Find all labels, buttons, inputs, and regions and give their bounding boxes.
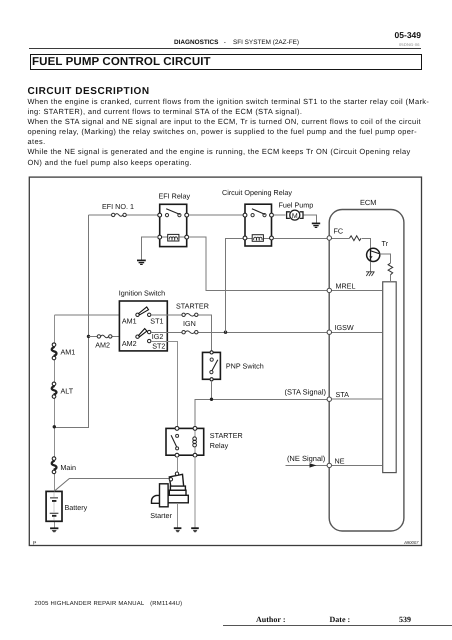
wire ST1 to PNP	[151, 315, 212, 351]
wire IGSW row	[332, 331, 383, 333]
svg-text:NE: NE	[335, 457, 345, 466]
svg-text:MREL: MREL	[336, 281, 356, 290]
svg-text:Ignition Switch: Ignition Switch	[119, 289, 165, 298]
section heading	[28, 86, 150, 97]
wire AM2 row	[89, 335, 136, 337]
EFI relay contact inner circles	[165, 214, 181, 217]
svg-text:FC: FC	[334, 227, 344, 236]
fuse STARTER	[182, 313, 198, 316]
PNP inner circles	[210, 358, 214, 374]
starter M2 pictogram	[152, 474, 189, 507]
starter relay R3 box	[166, 428, 204, 455]
wire STA row	[332, 398, 383, 400]
wire battery cable to starter	[54, 478, 70, 491]
fusible link AM1	[52, 343, 57, 360]
wire Tr emitter	[370, 262, 372, 272]
wire FC to resistor	[332, 237, 350, 239]
title box	[30, 54, 423, 71]
battery B1	[46, 491, 62, 521]
svg-text:ECM: ECM	[360, 198, 376, 207]
wire NE row	[332, 464, 383, 466]
svg-text:AM1: AM1	[122, 317, 137, 326]
ECM inner block	[383, 282, 397, 473]
svg-text:ST1: ST1	[150, 317, 163, 326]
ignition switch ST2 contact	[148, 339, 151, 342]
starter relay blade	[171, 435, 177, 446]
wire AM1 row	[55, 314, 136, 316]
COR coil	[247, 235, 270, 242]
svg-text:IG2: IG2	[152, 332, 164, 341]
svg-text:Relay: Relay	[210, 441, 229, 450]
wire ST2 to starter relay	[151, 341, 177, 428]
wire resistor to block	[390, 275, 392, 282]
junction dot IGN tap	[224, 331, 227, 334]
footer manual line	[35, 601, 183, 607]
ignition switch blade row1	[139, 307, 149, 315]
ground battery	[50, 528, 58, 532]
ground fuel pump	[312, 223, 320, 227]
fuse AM2	[97, 335, 112, 338]
starter relay inner circles	[176, 434, 179, 450]
wire COR coil to IGN	[226, 238, 244, 332]
svg-text:STARTER: STARTER	[176, 302, 209, 311]
svg-text:AM2: AM2	[95, 341, 110, 350]
running head	[174, 39, 299, 46]
wire FC row	[273, 237, 327, 239]
svg-text:ST2: ST2	[152, 341, 165, 350]
wire MREL row	[332, 289, 383, 291]
wire left column	[54, 315, 56, 528]
ground starter relay coil	[191, 528, 199, 532]
ECM U1 box	[329, 210, 404, 532]
wire EFI NO.1 row	[89, 214, 158, 216]
svg-text:Main: Main	[60, 463, 76, 472]
svg-text:EFI Relay: EFI Relay	[159, 192, 191, 201]
ECM terminal FC	[327, 236, 331, 240]
ECM terminal NE	[327, 463, 331, 467]
wire starter body to ground	[177, 503, 179, 528]
ignition switch blade row2	[139, 329, 147, 337]
ECM terminal MREL	[327, 288, 331, 292]
fusible link ALT	[52, 382, 57, 398]
junction dot AM2 tap	[87, 335, 90, 338]
starter terminal circles	[169, 472, 179, 481]
starter relay coil loops	[193, 430, 197, 453]
fuel pump M1 motor	[287, 210, 303, 220]
svg-text:(NE Signal): (NE Signal)	[287, 454, 326, 463]
svg-text:M: M	[292, 213, 298, 220]
svg-text:STARTER: STARTER	[210, 431, 243, 440]
junction dot STA	[210, 398, 213, 401]
transistor Tr	[367, 248, 380, 261]
svg-text:IGN: IGN	[183, 319, 196, 328]
svg-text:Circuit Opening Relay: Circuit Opening Relay	[222, 188, 292, 197]
fuse EFI NO.1	[112, 213, 127, 216]
ground EFI relay	[137, 260, 146, 264]
ECM terminal STA	[327, 397, 331, 401]
wire starter relay to starter	[176, 457, 178, 472]
PNP blade	[212, 360, 218, 371]
wire relay contact link	[189, 214, 244, 216]
wire EFI relay coil to MREL	[189, 237, 328, 290]
EFI relay coil	[162, 234, 185, 241]
PNP terminals	[210, 351, 213, 381]
wire main feed vertical	[54, 215, 89, 427]
wire NE input arrow	[285, 464, 327, 466]
ignition switch IG2 contact	[148, 330, 151, 333]
diagram frame	[29, 177, 421, 545]
wire starter relay coil to ground	[194, 457, 196, 528]
svg-text:(STA Signal): (STA Signal)	[284, 388, 326, 397]
svg-text:EFI NO. 1: EFI NO. 1	[102, 202, 134, 211]
PNP switch S1 box	[203, 352, 221, 379]
EFI relay terminals	[158, 213, 189, 239]
tiny code above rule	[399, 42, 420, 47]
fuse IGN	[182, 331, 198, 334]
ground starter body	[174, 528, 182, 532]
fusible link Main	[52, 457, 57, 474]
header rule	[29, 48, 421, 49]
wire Tr collector	[380, 254, 391, 263]
COR terminals	[243, 213, 273, 240]
resistor R-C vertical	[388, 263, 393, 275]
wire IGN row	[151, 331, 327, 333]
ignition switch SW1 box	[119, 301, 167, 351]
svg-text:PNP Switch: PNP Switch	[226, 361, 264, 370]
ignition switch AM2 contact	[136, 335, 139, 338]
svg-text:Starter: Starter	[150, 511, 172, 520]
wire STA junction to starter relay coil	[195, 399, 212, 428]
svg-text:A90007: A90007	[403, 540, 419, 545]
junction dot battery feed	[53, 425, 56, 428]
ignition switch AM1 contact	[136, 313, 139, 316]
svg-text:Battery: Battery	[65, 503, 88, 512]
svg-text:AM2: AM2	[122, 339, 137, 348]
svg-text:IGSW: IGSW	[335, 323, 354, 332]
resistor R-FC	[350, 236, 362, 241]
wire PNP to STA junction	[212, 381, 328, 399]
description paragraph	[28, 97, 448, 168]
svg-text:Tr: Tr	[382, 239, 389, 248]
EFI relay R1 box	[160, 204, 187, 246]
starter relay terminals	[175, 427, 197, 458]
footer rule	[223, 625, 452, 626]
wire EFI relay coil to ground	[141, 237, 157, 260]
wire fuel pump to ground	[304, 215, 317, 223]
svg-text:AM1: AM1	[61, 347, 76, 356]
ECM terminal IGSW	[327, 330, 331, 334]
ground Tr hatch	[366, 272, 374, 277]
wire resistor to Tr base	[362, 238, 371, 248]
svg-text:Fuel Pump: Fuel Pump	[279, 201, 314, 210]
page number	[0, 30, 421, 40]
wire COR to fuel pump	[273, 214, 285, 216]
svg-text:STA: STA	[336, 390, 350, 399]
EFI relay blade	[166, 209, 180, 215]
ignition switch ST1 contact	[148, 313, 151, 316]
circuit opening relay R2 box	[245, 204, 272, 246]
COR contact inner circles	[251, 214, 266, 217]
COR blade	[252, 209, 265, 215]
svg-text:ALT: ALT	[61, 387, 74, 396]
